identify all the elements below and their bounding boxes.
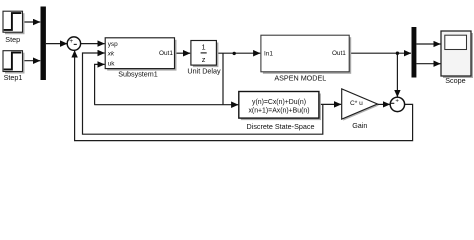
svg-text:1: 1 xyxy=(202,42,206,51)
svg-text:xk: xk xyxy=(107,50,115,57)
svg-text:+: + xyxy=(69,38,73,45)
svg-text:uk: uk xyxy=(108,61,116,68)
svg-text:+: + xyxy=(395,99,399,105)
svg-text:Step: Step xyxy=(5,35,20,44)
svg-text:C* u: C* u xyxy=(350,100,363,107)
svg-text:Out1: Out1 xyxy=(159,50,173,57)
svg-text:Subsystem1: Subsystem1 xyxy=(118,70,158,79)
svg-text:Out1: Out1 xyxy=(332,50,346,57)
svg-text:Scope: Scope xyxy=(445,76,465,85)
svg-text:x(n+1)=Ax(n)+Bu(n): x(n+1)=Ax(n)+Bu(n) xyxy=(248,108,309,115)
svg-text:Step1: Step1 xyxy=(4,73,23,82)
svg-text:Unit Delay: Unit Delay xyxy=(187,67,221,76)
svg-text:Discrete State-Space: Discrete State-Space xyxy=(247,122,315,131)
svg-text:y(n)=Cx(n)+Du(n): y(n)=Cx(n)+Du(n) xyxy=(252,99,306,106)
svg-text:Gain: Gain xyxy=(352,121,367,130)
svg-text:ASPEN MODEL: ASPEN MODEL xyxy=(274,73,326,82)
svg-text:In1: In1 xyxy=(264,51,273,58)
svg-text:ysp: ysp xyxy=(108,41,118,48)
svg-text:z: z xyxy=(202,55,206,64)
